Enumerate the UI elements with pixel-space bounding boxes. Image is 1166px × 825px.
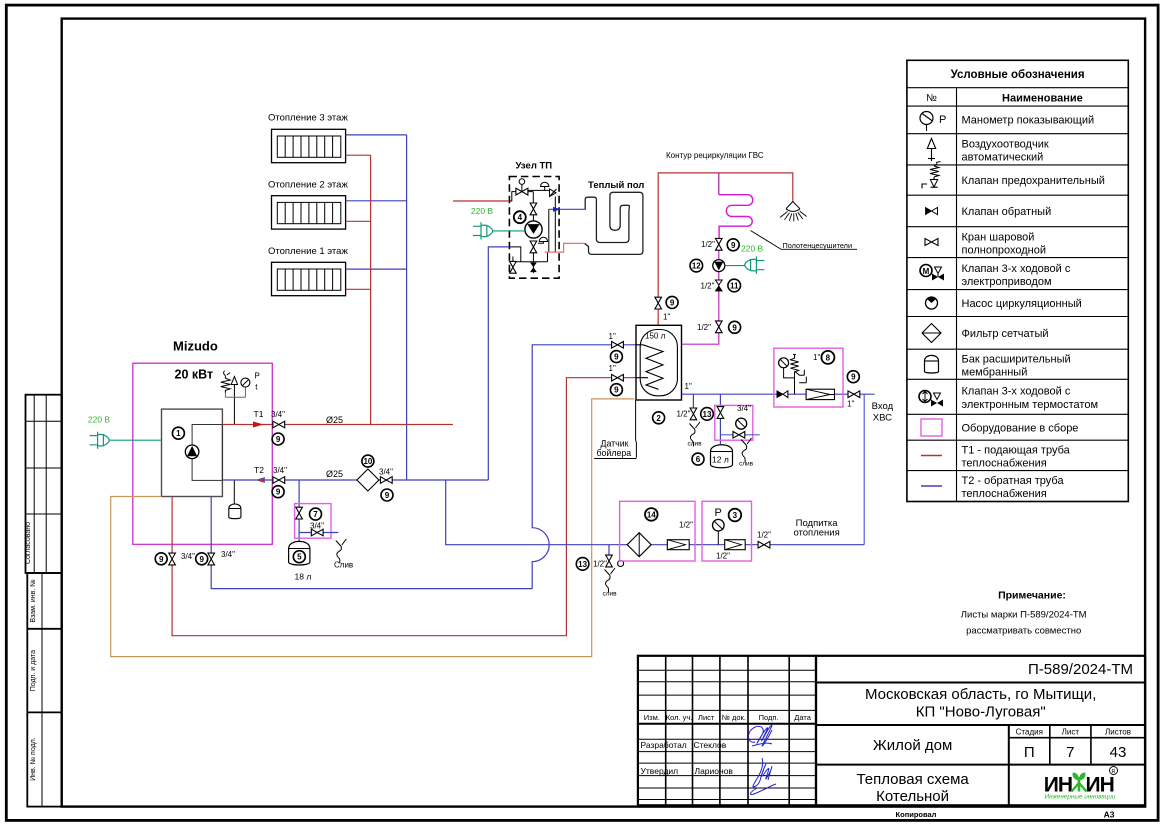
- node 9 coil out: [610, 384, 622, 396]
- legend symbol: ball valve: [925, 239, 938, 246]
- svg-text:12: 12: [692, 262, 701, 271]
- node 1: [172, 427, 184, 439]
- svg-text:Клапан предохранительный: Клапан предохранительный: [962, 175, 1105, 187]
- tank heating coil zigzag: [636, 345, 663, 390]
- svg-text:Отопление 1 этаж: Отопление 1 этаж: [268, 246, 348, 257]
- drain siphon 18L: [336, 539, 347, 564]
- svg-text:3: 3: [733, 511, 738, 520]
- svg-text:R: R: [1112, 769, 1116, 775]
- svg-text:теплоснабжения: теплоснабжения: [962, 488, 1047, 500]
- legend symbol: 3-way thermostat valve: [919, 391, 943, 407]
- T1 flow arrow: [253, 422, 264, 428]
- legend symbol: T1 red pipe: [921, 455, 942, 457]
- svg-text:1: 1: [176, 429, 181, 438]
- power plug 220V recirc pump: [745, 257, 765, 274]
- node 5: [293, 551, 305, 563]
- svg-text:Ø25: Ø25: [326, 415, 343, 425]
- node 13 makeup drain: [576, 558, 589, 571]
- node 9 T1 valve: [272, 433, 284, 445]
- pump boiler: [185, 445, 199, 459]
- node 9 DHW riser: [666, 296, 678, 308]
- strainer venturi box8: [806, 389, 834, 399]
- title block right part: [816, 656, 1145, 806]
- svg-text:Т2: Т2: [254, 465, 264, 475]
- svg-text:1/2": 1/2": [697, 323, 711, 332]
- wire red floor coil return: [545, 243, 585, 252]
- wire blue stub radiator 3: [346, 134, 407, 136]
- svg-text:Насос циркуляционный: Насос циркуляционный: [962, 298, 1082, 310]
- svg-text:Ларионов: Ларионов: [695, 766, 734, 776]
- svg-text:1/2": 1/2": [701, 282, 715, 291]
- svg-text:13: 13: [578, 560, 587, 569]
- svg-text:9: 9: [614, 386, 619, 395]
- svg-text:Лист: Лист: [1062, 728, 1080, 737]
- svg-text:9: 9: [614, 353, 619, 362]
- svg-text:Отопление 3 этаж: Отопление 3 этаж: [268, 113, 348, 124]
- legend symbol: safety valve: [922, 162, 941, 189]
- svg-text:Согласовано: Согласовано: [25, 522, 32, 564]
- wire green heat unit power: [493, 230, 525, 232]
- svg-text:рассматривать совместно: рассматривать совместно: [966, 626, 1081, 637]
- svg-text:Фильтр сетчатый: Фильтр сетчатый: [962, 328, 1049, 340]
- svg-text:7: 7: [313, 510, 318, 519]
- wire blue XVS down leg: [863, 394, 865, 545]
- valve blue riser drain: [208, 553, 215, 565]
- signature 2: [750, 758, 776, 795]
- svg-text:9: 9: [159, 555, 164, 564]
- valve 12L riser: [717, 407, 724, 419]
- svg-text:Клапан 3-х ходовой с: Клапан 3-х ходовой с: [962, 386, 1071, 398]
- equipment box Mizudo (magenta): [133, 363, 272, 544]
- svg-text:Кран шаровой: Кран шаровой: [962, 232, 1035, 244]
- wire red DHW top loop: [658, 173, 793, 325]
- svg-text:Р: Р: [255, 371, 260, 380]
- wire blue makeup drain stub: [608, 545, 610, 555]
- drain siphon tank: [689, 422, 700, 447]
- svg-text:ХВС: ХВС: [873, 413, 892, 424]
- node 6: [692, 453, 704, 465]
- expansion tank 18L: [289, 541, 310, 565]
- wire red supply to heat unit: [453, 200, 509, 202]
- radiator heating floor 1: [272, 262, 346, 295]
- pump heat unit: [525, 221, 542, 238]
- svg-text:Датчик: Датчик: [601, 438, 629, 448]
- DHW tank 150L body: [636, 325, 682, 400]
- svg-text:Т2 - обратная труба: Т2 - обратная труба: [962, 475, 1065, 487]
- svg-text:Воздухоотводчик: Воздухоотводчик: [962, 139, 1049, 151]
- heat unit drain valve center filled: [530, 263, 537, 273]
- svg-text:Подп.: Подп.: [759, 713, 779, 722]
- svg-text:9: 9: [276, 488, 281, 497]
- wire green boiler power: [109, 439, 161, 441]
- drain siphon makeup: [605, 568, 616, 593]
- svg-text:150 л: 150 л: [645, 332, 666, 341]
- equipment box 8 (magenta): [774, 348, 843, 407]
- svg-text:мембранный: мембранный: [962, 367, 1028, 379]
- svg-text:№ док.: № док.: [722, 713, 746, 722]
- svg-text:Разработал: Разработал: [641, 740, 687, 750]
- svg-text:1/2": 1/2": [716, 552, 730, 561]
- svg-text:Теплый пол: Теплый пол: [588, 180, 644, 191]
- wire magenta recirculation riser: [682, 238, 719, 344]
- heat unit 3-way valve with actuator: [516, 179, 528, 195]
- svg-text:9: 9: [276, 435, 281, 444]
- legend symbol: air vent: [927, 139, 935, 162]
- svg-text:9: 9: [731, 241, 736, 250]
- towel dryer coil: [719, 195, 753, 238]
- svg-text:Клапан обратный: Клапан обратный: [962, 206, 1052, 218]
- node 14: [645, 508, 658, 521]
- pressure reducer box3: [725, 540, 746, 550]
- valve expansion riser: [296, 507, 303, 519]
- svg-text:220 В: 220 В: [471, 206, 494, 216]
- pressure gauge box3: [713, 519, 725, 544]
- wire magenta to towel coil: [718, 173, 720, 195]
- svg-text:13: 13: [703, 410, 712, 419]
- svg-text:14: 14: [647, 510, 656, 519]
- svg-text:3/4": 3/4": [379, 468, 393, 477]
- LEGEND TABLE: [907, 60, 1128, 501]
- boiler internal loop: [192, 425, 222, 481]
- heat unit air cap lower: [539, 237, 547, 241]
- svg-text:Контур рециркуляции ГВС: Контур рециркуляции ГВС: [666, 151, 764, 160]
- svg-text:8: 8: [826, 353, 831, 362]
- svg-text:Mizudo: Mizudo: [173, 339, 218, 354]
- wire T1 supply from boiler: [222, 424, 453, 426]
- svg-text:3/4": 3/4": [273, 466, 287, 475]
- drain siphon 12L: [741, 438, 752, 463]
- wire red boiler to tank coil: [172, 378, 636, 636]
- boiler safety valve: [221, 371, 230, 393]
- svg-text:Р: Р: [715, 507, 722, 519]
- check valve cold main: [777, 391, 788, 398]
- strainer venturi box14: [667, 540, 689, 550]
- valve T1: [273, 421, 285, 428]
- filter strainer on T2: [357, 469, 379, 491]
- valve recirculation lower: [716, 321, 723, 333]
- svg-text:автоматический: автоматический: [962, 152, 1044, 164]
- node 13 tank drain: [701, 408, 714, 421]
- node 9 coil in: [610, 351, 622, 363]
- wire red stub radiator 2: [346, 220, 371, 222]
- node 9 recirc lower valve: [729, 321, 741, 333]
- svg-text:Тепловая схема: Тепловая схема: [856, 771, 969, 788]
- svg-text:9: 9: [199, 555, 204, 564]
- svg-text:Клапан 3-х ходовой с: Клапан 3-х ходовой с: [962, 263, 1071, 275]
- legend symbol: circulation pump: [926, 297, 938, 309]
- svg-text:Бак расширительный: Бак расширительный: [962, 354, 1071, 366]
- svg-text:220 В: 220 В: [88, 415, 111, 425]
- svg-text:Лист: Лист: [698, 713, 715, 722]
- valve makeup: [758, 541, 770, 548]
- svg-text:3/4": 3/4": [221, 550, 235, 559]
- heat point unit dashed box: [509, 177, 559, 279]
- svg-text:43: 43: [1110, 744, 1127, 761]
- svg-text:Котельной: Котельной: [876, 788, 949, 805]
- node 7: [310, 508, 322, 520]
- svg-text:Копировал: Копировал: [896, 810, 937, 819]
- valve recirculation upper: [716, 238, 723, 250]
- shower head symbol: [780, 202, 807, 222]
- wire blue cold water main: [682, 393, 875, 395]
- svg-text:Р: Р: [939, 114, 946, 126]
- svg-text:1": 1": [847, 400, 854, 409]
- svg-text:электронным термостатом: электронным термостатом: [962, 399, 1099, 411]
- valve 1" tank coil out: [612, 374, 624, 381]
- svg-text:слив: слив: [739, 461, 754, 468]
- svg-text:1/2": 1/2": [679, 521, 693, 530]
- svg-text:3/4": 3/4": [181, 552, 195, 561]
- node 2: [653, 412, 665, 424]
- manometer box8: [779, 358, 795, 394]
- svg-text:220 В: 220 В: [741, 244, 764, 254]
- svg-text:Кол. уч.: Кол. уч.: [666, 713, 693, 722]
- hose connection makeup drain: [618, 561, 624, 567]
- equipment box 3 (magenta): [702, 501, 752, 561]
- node 9 XVS valve: [847, 371, 859, 383]
- svg-text:КП "Ново-Луговая": КП "Ново-Луговая": [916, 704, 1046, 721]
- heat unit internal piping: [509, 187, 555, 274]
- svg-text:М: М: [923, 267, 930, 276]
- heat unit balancing valve: [530, 203, 537, 215]
- svg-text:Изм.: Изм.: [644, 713, 660, 722]
- svg-text:Полотенцесушители: Полотенцесушители: [783, 241, 853, 250]
- svg-text:5: 5: [297, 553, 302, 562]
- svg-text:Подп. и дата: Подп. и дата: [30, 650, 37, 691]
- wire blue stub radiator 1: [346, 268, 407, 270]
- svg-text:Ø25: Ø25: [326, 469, 343, 479]
- wire blue tank coil return to boiler: [211, 497, 532, 589]
- wire T2 return to boiler: [222, 479, 488, 481]
- svg-text:4: 4: [518, 213, 523, 222]
- svg-text:Слив: Слив: [334, 561, 353, 570]
- floor supply arrow: [553, 207, 561, 212]
- check valve recirculation: [715, 280, 722, 291]
- svg-text:слив: слив: [603, 591, 618, 598]
- wire blue expansion tank riser: [298, 480, 300, 542]
- legend symbol: 3-way electric valve: [920, 265, 944, 281]
- valve tank drain: [690, 408, 697, 420]
- svg-text:2: 2: [656, 414, 661, 423]
- svg-text:полнопроходной: полнопроходной: [962, 245, 1047, 257]
- svg-text:Оборудование в сборе: Оборудование в сборе: [962, 423, 1079, 435]
- svg-text:П-589/2024-ТМ: П-589/2024-ТМ: [1028, 661, 1133, 678]
- svg-text:Т1: Т1: [254, 409, 264, 419]
- svg-text:9: 9: [732, 323, 737, 332]
- radiator heating floor 3: [272, 129, 346, 162]
- wire blue stub radiator 2: [346, 200, 407, 202]
- valve 1" tank coil in: [612, 342, 624, 349]
- logo INZHIN: [1044, 767, 1118, 801]
- pump recirculation: [713, 260, 725, 272]
- wire green recirc pump power: [725, 265, 745, 267]
- legend symbol: T2 blue pipe: [921, 485, 942, 487]
- svg-text:1": 1": [813, 353, 820, 362]
- svg-text:18 л: 18 л: [295, 572, 312, 582]
- valve DHW riser: [655, 297, 662, 309]
- valve 12L drain: [733, 432, 745, 439]
- svg-text:Листов: Листов: [1105, 728, 1131, 737]
- boiler expansion vessel: [229, 480, 241, 518]
- node 9 recirc upper valve: [727, 239, 739, 251]
- svg-text:Листы марки П-589/2024-ТМ: Листы марки П-589/2024-ТМ: [961, 610, 1087, 621]
- leader line towel dryers: [751, 231, 782, 250]
- heat unit lower valve: [530, 241, 537, 253]
- node 9 T2 valve: [272, 486, 284, 498]
- heat unit air cap top: [541, 182, 549, 186]
- svg-text:Примечание:: Примечание:: [998, 590, 1066, 602]
- svg-text:6: 6: [696, 455, 701, 464]
- svg-text:11: 11: [730, 282, 739, 291]
- legend symbol: expansion tank: [925, 355, 939, 373]
- svg-text:Т1 - подающая труба: Т1 - подающая труба: [962, 445, 1071, 457]
- legend symbol: equipment assembled (magenta box): [921, 419, 942, 436]
- wire blue stub to 12L tank: [719, 394, 721, 444]
- node 8: [821, 351, 834, 364]
- svg-text:Утвердил: Утвердил: [641, 766, 679, 776]
- wire blue drain stub near tank: [692, 394, 694, 407]
- legend symbol: manometer: [920, 112, 946, 132]
- svg-text:Инженерные инновации: Инженерные инновации: [1045, 794, 1116, 801]
- wire blue radiator riser: [406, 135, 408, 480]
- signature 1: [748, 725, 772, 746]
- valve T2 second: [380, 477, 392, 484]
- wire red stub radiator 1: [346, 288, 371, 290]
- valve XVS inlet: [848, 391, 860, 398]
- wire blue heat unit to floor coil: [549, 208, 585, 210]
- node 9 drain valve red: [155, 553, 167, 565]
- DHW tank inner vessel: [640, 330, 677, 396]
- svg-text:Стеклов: Стеклов: [694, 740, 727, 750]
- boiler manometer: [225, 378, 250, 397]
- safety valve box8: [790, 354, 806, 383]
- equipment box 14 (magenta): [620, 501, 695, 561]
- wire blue 12L drain line: [720, 434, 759, 436]
- wire red stub radiator 3: [346, 154, 371, 156]
- legend symbol: strainer filter: [922, 324, 941, 343]
- svg-text:теплоснабжения: теплоснабжения: [962, 458, 1047, 470]
- svg-text:9: 9: [670, 298, 675, 307]
- leader boiler sensor: [594, 400, 636, 459]
- floor heating coil: [585, 192, 643, 254]
- svg-text:9: 9: [851, 373, 856, 382]
- wire blue return from heat unit: [488, 247, 509, 480]
- svg-text:А3: А3: [1104, 810, 1115, 820]
- wire blue makeup line: [446, 480, 865, 545]
- node 4: [514, 211, 526, 223]
- valve red riser drain: [169, 553, 176, 565]
- svg-text:электроприводом: электроприводом: [962, 276, 1052, 288]
- node 10: [362, 455, 374, 467]
- label Полотенцесушители: [781, 241, 857, 250]
- svg-text:1": 1": [663, 313, 670, 322]
- svg-text:Условные обозначения: Условные обозначения: [951, 69, 1085, 81]
- wire red radiator riser: [370, 155, 372, 424]
- svg-text:10: 10: [363, 457, 372, 466]
- legend symbol: check valve: [926, 208, 938, 215]
- power plug 220V heat unit: [473, 222, 493, 239]
- svg-text:1": 1": [685, 382, 692, 391]
- svg-text:П: П: [1024, 744, 1035, 761]
- svg-text:Манометр показывающий: Манометр показывающий: [962, 115, 1095, 127]
- valve T2: [273, 477, 285, 484]
- svg-text:3/4": 3/4": [737, 404, 751, 413]
- equipment box 7 (magenta): [295, 504, 331, 539]
- svg-text:слив: слив: [688, 441, 703, 448]
- boiler air vent: [231, 377, 237, 425]
- svg-text:20 кВт: 20 кВт: [175, 367, 214, 381]
- boiler body: [162, 409, 223, 496]
- node 11: [728, 279, 741, 292]
- node 12: [690, 259, 703, 272]
- svg-text:Стадия: Стадия: [1016, 728, 1043, 737]
- svg-text:1": 1": [609, 332, 616, 341]
- power plug 220V boiler: [90, 432, 110, 449]
- svg-text:Вход: Вход: [872, 401, 894, 412]
- node 9 T2 second valve: [381, 489, 393, 501]
- svg-text:отопления: отопления: [793, 528, 839, 539]
- svg-text:Жилой дом: Жилой дом: [873, 737, 952, 754]
- heat unit drain valve left: [510, 261, 517, 273]
- svg-text:3/4": 3/4": [271, 410, 285, 419]
- wire blue riser to tank coil with hop: [532, 345, 636, 589]
- svg-text:бойлера: бойлера: [597, 448, 632, 458]
- wire tan boiler sensor cable: [111, 399, 635, 657]
- svg-text:1/2": 1/2": [757, 531, 771, 540]
- valve box7 drain: [311, 529, 323, 536]
- svg-text:12 л: 12 л: [712, 455, 729, 465]
- equipment box 12L valves (magenta): [715, 405, 753, 440]
- left approval stamp table: [26, 395, 62, 573]
- svg-text:Дата: Дата: [794, 713, 811, 722]
- svg-text:Отопление 2 этаж: Отопление 2 этаж: [268, 180, 348, 191]
- thermometer gauge 12L: [736, 418, 747, 429]
- svg-text:№: №: [926, 93, 937, 104]
- heat unit check valve: [550, 189, 557, 197]
- svg-text:1/2": 1/2": [677, 410, 691, 419]
- T2 flow arrow: [257, 478, 265, 483]
- filter diamond makeup: [627, 533, 651, 557]
- node 9 drain valve blue: [196, 553, 208, 565]
- svg-text:7: 7: [1066, 744, 1074, 761]
- svg-text:Инв. № подл.: Инв. № подл.: [30, 737, 37, 781]
- title block left table: [638, 656, 816, 806]
- svg-text:1": 1": [609, 364, 616, 373]
- svg-text:Узел ТП: Узел ТП: [516, 161, 553, 172]
- svg-text:1/2": 1/2": [701, 240, 715, 249]
- left stamp lower sections: [27, 573, 61, 807]
- svg-text:Взам. инв. №: Взам. инв. №: [30, 579, 37, 622]
- node 3: [729, 509, 742, 522]
- svg-text:Наименование: Наименование: [1002, 93, 1083, 105]
- wire blue box7 drain: [299, 532, 338, 534]
- svg-text:9: 9: [385, 491, 390, 500]
- expansion tank 12L: [711, 445, 733, 468]
- radiator heating floor 2: [272, 196, 346, 229]
- svg-text:Московская область, го Мытищи,: Московская область, го Мытищи,: [865, 686, 1096, 703]
- valve makeup drain: [606, 555, 613, 567]
